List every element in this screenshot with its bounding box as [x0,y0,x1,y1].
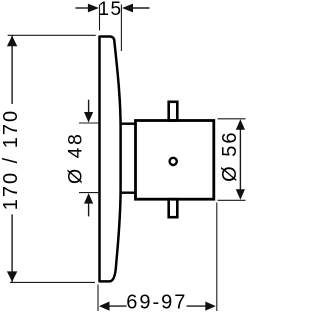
stem sleeve top line [120,122,136,124]
dim Ø48: top tick [79,122,101,124]
dim Ø56: down arrow [236,189,245,200]
dim Ø48: bottom tick [79,192,101,194]
dim 69-97: right arrow [205,302,216,311]
dim 69-97: dimension line right segment [187,305,207,307]
dim 69-97: left arrow [99,302,110,311]
dim 170/170: up arrow [7,36,17,47]
svg-text:Ø 56: Ø 56 [219,131,241,182]
dim 15: right extension line [120,5,122,52]
handle top tab [169,102,178,121]
escutcheon plate (side profile) [100,37,121,282]
dim 15: left extension line [99,5,101,31]
dim 69-97: right extension line [216,203,218,312]
dim 15: right arrow + leader [122,4,133,13]
stem sleeve bottom line [120,191,136,193]
svg-text:170 / 170: 170 / 170 [0,109,22,210]
center screw circle [170,158,177,165]
dim 170/170: bottom extension line [10,281,95,283]
dim 69-97: left extension line [97,285,99,312]
dim 170/170: down arrow [7,271,17,282]
dim 170/170: top extension line [8,34,96,36]
dim 170/170: dimension line upper segment [11,35,13,104]
handle bottom tab [169,199,178,217]
dim Ø56: bottom extension line [218,199,246,201]
dim 69-97: dimension line left segment [109,305,127,307]
dim 15: left leader + arrow [76,7,90,9]
dim Ø56: up arrow [236,119,245,130]
svg-text:Ø 48: Ø 48 [65,132,87,184]
dim 170/170: dimension line lower segment [11,214,13,282]
dim Ø48: top arrow (points down) [88,100,90,112]
dim Ø48: bottom arrow (points up) [84,193,93,204]
dim Ø56: top extension line [218,118,246,120]
dim Ø56: dimension line [239,123,241,196]
svg-text:69-97: 69-97 [126,292,187,314]
svg-text:15: 15 [98,0,122,20]
handle block [136,121,214,200]
